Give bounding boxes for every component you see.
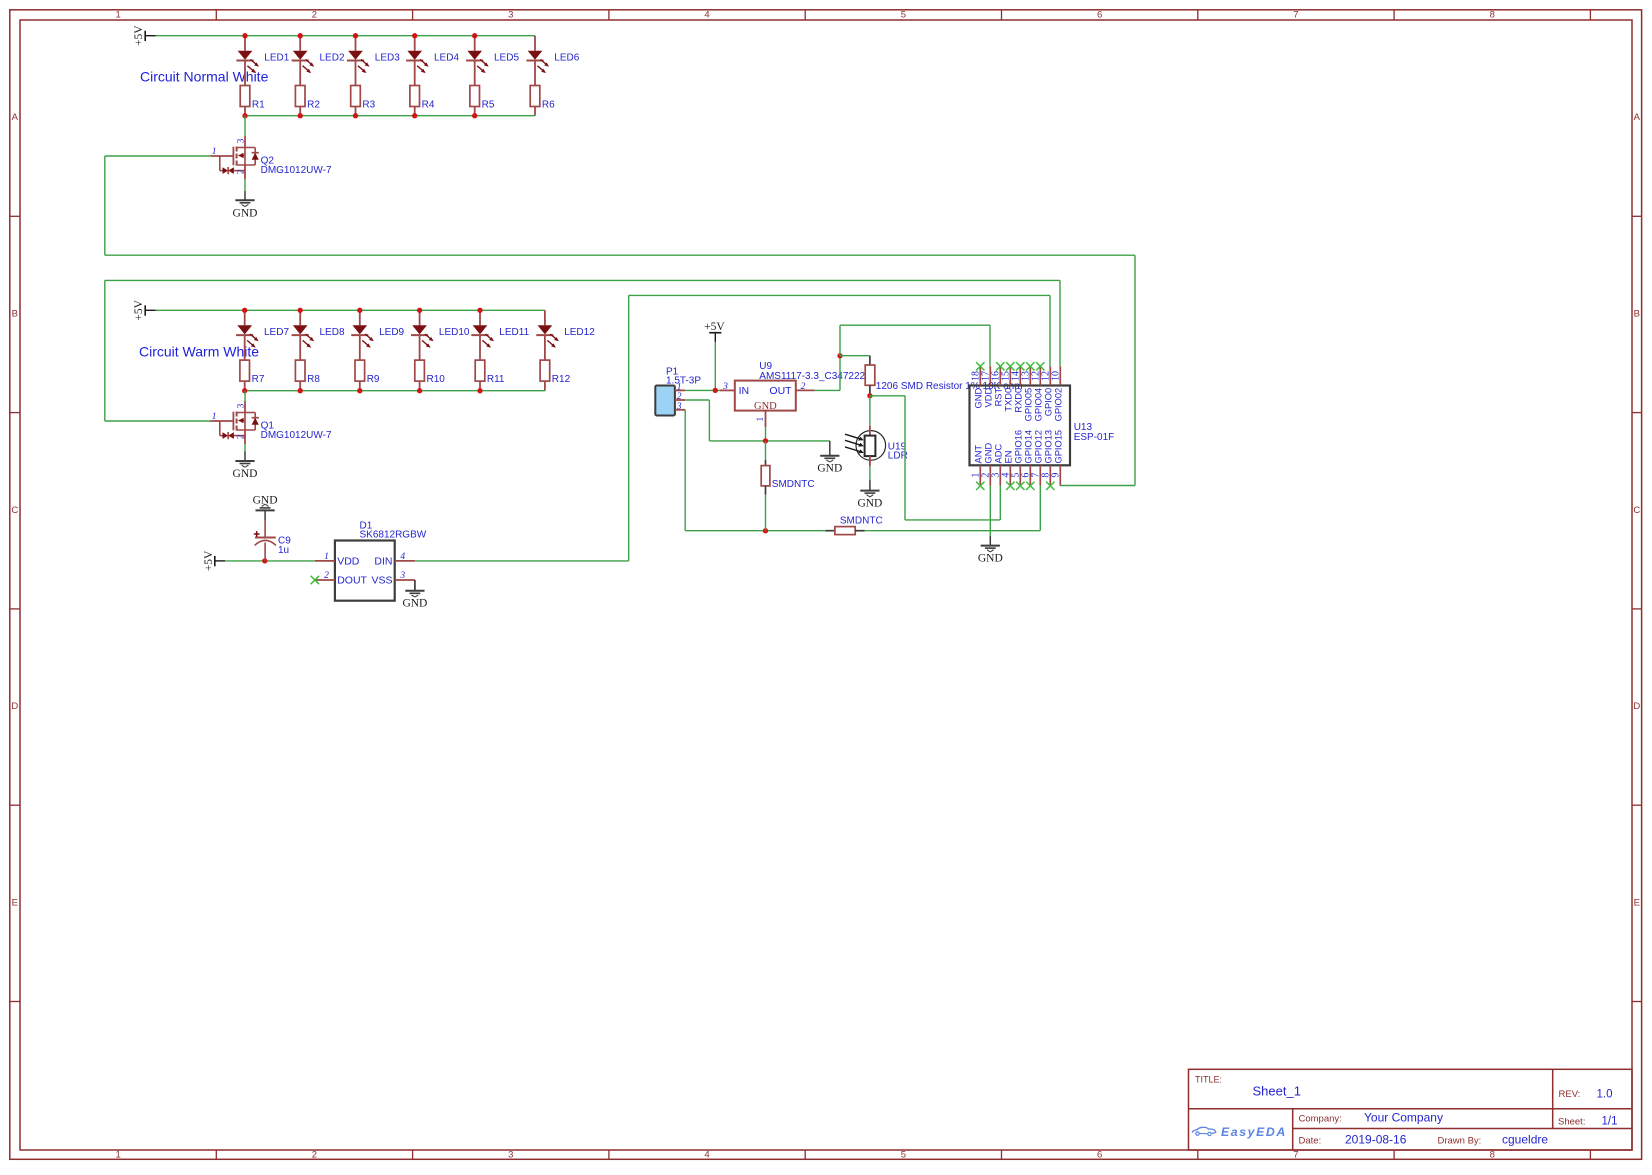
svg-text:RXD0: RXD0 xyxy=(1013,388,1023,413)
svg-text:5: 5 xyxy=(901,1150,906,1161)
svg-text:LED10: LED10 xyxy=(439,327,470,338)
svg-text:B: B xyxy=(1634,308,1640,319)
svg-text:GND: GND xyxy=(402,597,427,609)
svg-text:5: 5 xyxy=(901,10,906,21)
svg-text:AMS1117-3.3_C347222: AMS1117-3.3_C347222 xyxy=(759,371,865,382)
svg-text:ADC: ADC xyxy=(993,444,1003,464)
svg-text:GND: GND xyxy=(857,497,882,509)
svg-text:LED8: LED8 xyxy=(320,327,345,338)
svg-text:1u: 1u xyxy=(278,545,289,556)
svg-text:1: 1 xyxy=(212,412,217,422)
svg-text:LED6: LED6 xyxy=(554,53,579,64)
svg-text:GND: GND xyxy=(253,495,278,507)
svg-text:4: 4 xyxy=(704,1150,709,1161)
svg-text:GPIO04: GPIO04 xyxy=(1033,388,1043,422)
svg-text:GND: GND xyxy=(754,401,777,412)
svg-text:GPIO13: GPIO13 xyxy=(1043,430,1053,464)
svg-text:LED7: LED7 xyxy=(264,327,289,338)
svg-text:R6: R6 xyxy=(542,100,555,111)
svg-text:B: B xyxy=(12,308,18,319)
svg-text:E: E xyxy=(1634,897,1640,908)
svg-text:3: 3 xyxy=(722,382,728,392)
svg-text:A: A xyxy=(12,112,19,123)
svg-text:LED12: LED12 xyxy=(564,327,595,338)
svg-text:GND: GND xyxy=(978,553,1003,565)
svg-text:LED1: LED1 xyxy=(264,53,289,64)
svg-text:IN: IN xyxy=(739,385,750,397)
svg-text:LED4: LED4 xyxy=(434,53,459,64)
svg-text:C: C xyxy=(1633,505,1640,516)
svg-text:6: 6 xyxy=(1097,1150,1102,1161)
svg-text:R1: R1 xyxy=(252,100,265,111)
svg-text:3: 3 xyxy=(236,138,246,143)
svg-text:Sheet_1: Sheet_1 xyxy=(1253,1084,1301,1099)
svg-text:8: 8 xyxy=(1490,10,1495,21)
svg-text:2019-08-16: 2019-08-16 xyxy=(1345,1133,1407,1147)
svg-text:GPIO02: GPIO02 xyxy=(1053,388,1063,422)
svg-text:2: 2 xyxy=(324,571,329,581)
svg-text:RST: RST xyxy=(993,387,1003,406)
svg-text:GPIO12: GPIO12 xyxy=(1033,430,1043,464)
svg-text:DIN: DIN xyxy=(374,555,392,567)
svg-text:ANT: ANT xyxy=(973,445,983,464)
svg-text:8: 8 xyxy=(1490,1150,1495,1161)
svg-text:SMDNTC: SMDNTC xyxy=(772,479,815,490)
svg-text:A: A xyxy=(1634,112,1641,123)
svg-text:7: 7 xyxy=(1293,1150,1298,1161)
svg-text:VDD: VDD xyxy=(983,388,993,408)
svg-text:GND: GND xyxy=(817,463,842,475)
svg-text:R5: R5 xyxy=(482,100,495,111)
svg-text:Circuit Warm White: Circuit Warm White xyxy=(139,344,259,360)
svg-text:EN: EN xyxy=(1003,451,1013,464)
svg-text:OUT: OUT xyxy=(769,385,792,397)
svg-text:TITLE:: TITLE: xyxy=(1195,1075,1222,1085)
svg-text:2: 2 xyxy=(236,434,246,439)
svg-text:2: 2 xyxy=(312,1150,317,1161)
svg-text:9: 9 xyxy=(1051,473,1062,478)
svg-text:ESP-01F: ESP-01F xyxy=(1074,432,1115,443)
svg-text:E: E xyxy=(12,897,18,908)
svg-text:GND: GND xyxy=(973,388,983,409)
svg-text:R4: R4 xyxy=(422,100,435,111)
svg-text:LED5: LED5 xyxy=(494,53,519,64)
svg-text:VSS: VSS xyxy=(371,575,392,587)
svg-text:4: 4 xyxy=(704,10,709,21)
svg-text:1.0: 1.0 xyxy=(1597,1089,1613,1101)
svg-text:EasyEDA: EasyEDA xyxy=(1221,1125,1287,1139)
svg-text:+5V: +5V xyxy=(133,25,145,46)
svg-text:+5V: +5V xyxy=(133,299,145,320)
svg-text:GND: GND xyxy=(233,468,258,480)
svg-text:R12: R12 xyxy=(552,374,571,385)
svg-text:R10: R10 xyxy=(427,374,446,385)
svg-text:D: D xyxy=(1633,701,1640,712)
svg-text:1: 1 xyxy=(116,1150,121,1161)
svg-text:7: 7 xyxy=(1293,10,1298,21)
svg-text:R8: R8 xyxy=(307,374,320,385)
svg-text:LED9: LED9 xyxy=(379,327,404,338)
svg-text:2: 2 xyxy=(312,10,317,21)
svg-text:6: 6 xyxy=(1097,10,1102,21)
svg-text:2: 2 xyxy=(236,169,246,174)
svg-text:Sheet:: Sheet: xyxy=(1558,1117,1585,1128)
svg-text:DOUT: DOUT xyxy=(337,575,367,587)
svg-text:2: 2 xyxy=(677,392,682,402)
svg-text:R11: R11 xyxy=(487,374,505,385)
svg-text:LED3: LED3 xyxy=(375,53,400,64)
svg-text:GPIO05: GPIO05 xyxy=(1023,388,1033,422)
svg-text:Company:: Company: xyxy=(1299,1114,1342,1125)
svg-text:1/1: 1/1 xyxy=(1602,1116,1618,1128)
svg-text:SK6812RGBW: SK6812RGBW xyxy=(360,530,427,541)
svg-text:3: 3 xyxy=(236,403,246,408)
svg-text:R9: R9 xyxy=(367,374,380,385)
svg-text:LED2: LED2 xyxy=(320,53,345,64)
svg-text:VDD: VDD xyxy=(337,555,360,567)
svg-text:1.5T-3P: 1.5T-3P xyxy=(666,375,701,386)
svg-text:GPIO16: GPIO16 xyxy=(1013,430,1023,464)
svg-text:3: 3 xyxy=(676,402,682,412)
svg-text:3: 3 xyxy=(508,10,513,21)
svg-text:cgueldre: cgueldre xyxy=(1502,1133,1548,1147)
svg-text:GPIO0: GPIO0 xyxy=(1043,388,1053,416)
svg-text:1: 1 xyxy=(324,552,329,562)
svg-text:10: 10 xyxy=(1051,371,1062,381)
svg-text:GPIO15: GPIO15 xyxy=(1053,430,1063,464)
svg-text:D: D xyxy=(11,701,18,712)
svg-text:GND: GND xyxy=(233,207,258,219)
svg-text:+5V: +5V xyxy=(203,550,215,571)
svg-text:+5V: +5V xyxy=(704,321,725,333)
svg-text:4: 4 xyxy=(400,552,405,562)
svg-text:REV:: REV: xyxy=(1559,1089,1581,1100)
svg-text:1: 1 xyxy=(116,10,121,21)
svg-text:SMDNTC: SMDNTC xyxy=(840,516,883,527)
svg-text:C: C xyxy=(11,505,18,516)
svg-text:GPIO14: GPIO14 xyxy=(1023,430,1033,464)
svg-text:TXD0: TXD0 xyxy=(1003,388,1013,412)
svg-text:Circuit Normal White: Circuit Normal White xyxy=(140,69,269,85)
svg-text:LED11: LED11 xyxy=(499,327,529,338)
svg-text:DMG1012UW-7: DMG1012UW-7 xyxy=(261,165,332,176)
svg-text:GND: GND xyxy=(983,443,993,464)
svg-text:3: 3 xyxy=(508,1150,513,1161)
svg-text:Date:: Date: xyxy=(1299,1136,1322,1147)
svg-text:1: 1 xyxy=(756,417,766,422)
svg-text:3: 3 xyxy=(399,571,405,581)
svg-text:R3: R3 xyxy=(362,100,375,111)
svg-text:Your Company: Your Company xyxy=(1364,1111,1443,1125)
svg-text:Drawn By:: Drawn By: xyxy=(1438,1136,1482,1147)
svg-text:R7: R7 xyxy=(252,374,265,385)
svg-text:1: 1 xyxy=(212,147,217,157)
svg-text:DMG1012UW-7: DMG1012UW-7 xyxy=(261,430,332,441)
svg-text:1: 1 xyxy=(677,383,682,393)
svg-text:R2: R2 xyxy=(307,100,320,111)
